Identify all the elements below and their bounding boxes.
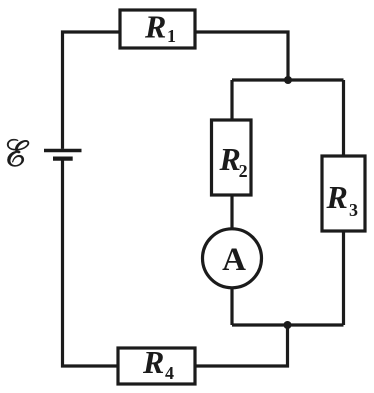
svg-text:R: R [144,9,166,45]
svg-text:3: 3 [349,200,358,220]
svg-text:R: R [142,344,164,380]
svg-text:R: R [326,179,348,215]
svg-text:R: R [219,141,241,177]
svg-text:1: 1 [167,26,176,46]
svg-text:4: 4 [165,363,174,383]
svg-text:2: 2 [239,161,248,181]
svg-text:A: A [222,242,246,278]
